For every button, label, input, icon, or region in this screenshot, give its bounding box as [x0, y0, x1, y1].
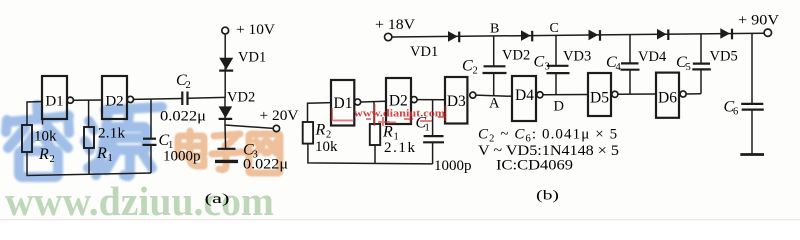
svg-text:2.1k: 2.1k — [384, 140, 416, 156]
svg-text:+ 18V: + 18V — [375, 17, 415, 33]
svg-text:1000p: 1000p — [163, 149, 201, 165]
svg-text:VD2: VD2 — [227, 90, 255, 106]
svg-text:VD5: VD5 — [710, 49, 738, 65]
svg-text:C2 ~ C6: 0.041μ × 5: C2 ~ C6: 0.041μ × 5 — [478, 127, 618, 145]
svg-text:D4: D4 — [515, 87, 534, 104]
svg-text:(b): (b) — [536, 189, 559, 204]
svg-text:D1: D1 — [334, 95, 353, 112]
svg-text:D3: D3 — [447, 93, 466, 110]
svg-text:+ 10V: + 10V — [236, 22, 275, 38]
svg-text:10k: 10k — [315, 139, 338, 155]
svg-text:VD3: VD3 — [563, 49, 591, 65]
svg-text:R: R — [315, 122, 326, 139]
svg-text:B: B — [490, 22, 499, 37]
svg-text:D6: D6 — [658, 90, 677, 107]
svg-text:2: 2 — [473, 66, 478, 77]
svg-text:+ 90V: + 90V — [738, 13, 779, 29]
svg-text:0.022μ: 0.022μ — [160, 109, 206, 125]
svg-text:5: 5 — [686, 62, 691, 73]
svg-text:+ 20V: + 20V — [260, 108, 299, 124]
svg-text:IC:CD4069: IC:CD4069 — [496, 158, 573, 174]
svg-text:2: 2 — [186, 80, 191, 91]
svg-text:D1: D1 — [45, 94, 63, 110]
svg-text:D5: D5 — [590, 90, 609, 107]
svg-text:VD2: VD2 — [502, 48, 530, 64]
svg-text:2: 2 — [50, 154, 55, 165]
svg-text:R: R — [96, 145, 107, 162]
svg-text:0.022μ: 0.022μ — [243, 157, 288, 173]
svg-text:R: R — [382, 124, 393, 141]
svg-text:VD4: VD4 — [638, 49, 667, 65]
svg-text:A: A — [489, 96, 500, 112]
svg-text:C: C — [534, 54, 545, 71]
svg-text:www.dziuu.com: www.dziuu.com — [5, 178, 274, 221]
svg-text:www.dianiut.com: www.dianiut.com — [354, 108, 445, 120]
svg-text:C: C — [462, 58, 473, 75]
svg-text:D2: D2 — [105, 94, 123, 110]
svg-text:6: 6 — [733, 107, 738, 118]
svg-text:R: R — [38, 146, 49, 163]
svg-text:10k: 10k — [34, 129, 57, 145]
svg-text:VD1: VD1 — [410, 44, 438, 60]
svg-text:2.1k: 2.1k — [98, 126, 126, 142]
svg-text:VD1: VD1 — [238, 50, 266, 66]
svg-text:(a): (a) — [205, 192, 231, 207]
svg-text:1: 1 — [425, 123, 430, 134]
svg-text:3: 3 — [545, 62, 550, 73]
svg-text:D: D — [554, 99, 564, 115]
svg-text:1000p: 1000p — [434, 158, 472, 174]
svg-text:C: C — [550, 21, 559, 36]
svg-text:4: 4 — [616, 62, 622, 73]
svg-text:1: 1 — [108, 153, 113, 164]
